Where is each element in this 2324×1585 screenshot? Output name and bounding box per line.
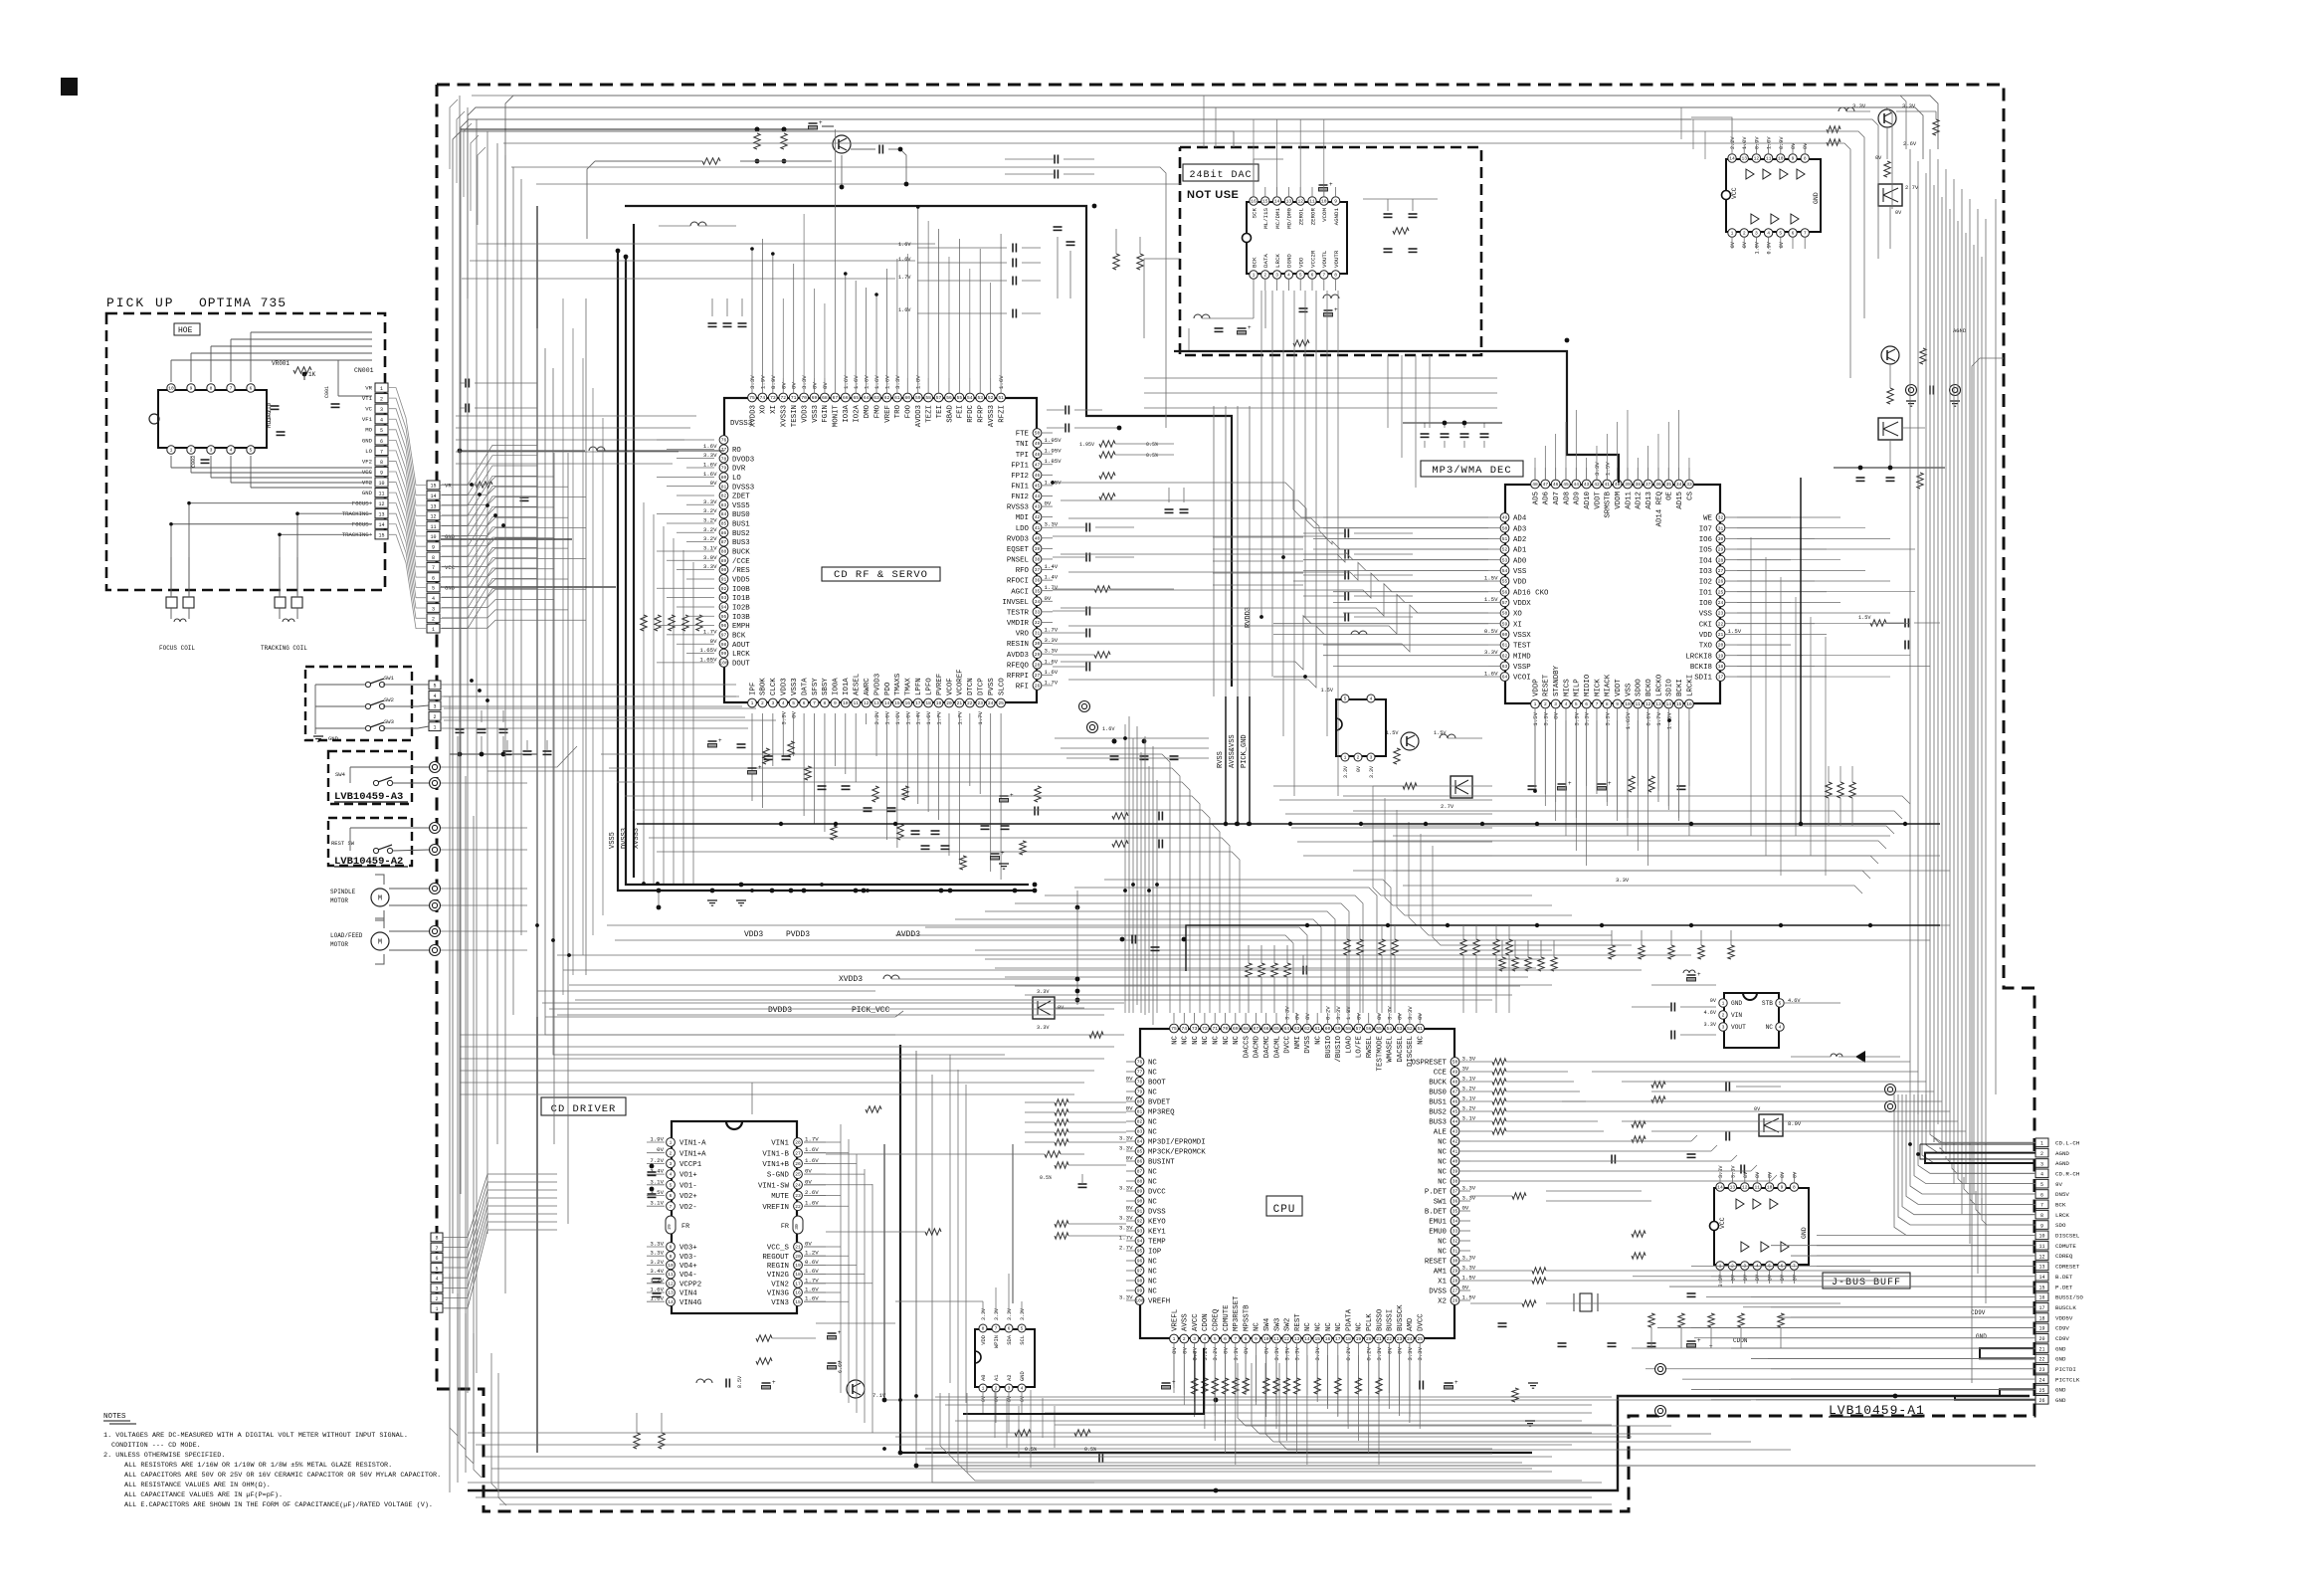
svg-text:91: 91 <box>1137 1209 1143 1215</box>
svg-text:52: 52 <box>1502 547 1508 553</box>
svg-text:3: 3 <box>210 448 213 454</box>
svg-text:0.9V: 0.9V <box>1779 136 1785 149</box>
svg-text:IO0: IO0 <box>1699 600 1712 608</box>
svg-text:RFDC: RFDC <box>967 404 975 422</box>
svg-text:48: 48 <box>1532 482 1538 488</box>
svg-text:AESEL: AESEL <box>854 674 862 695</box>
svg-text:23: 23 <box>2038 1367 2044 1373</box>
svg-text:3.3V: 3.3V <box>1119 1185 1133 1192</box>
svg-text:3.3V: 3.3V <box>1037 1025 1050 1031</box>
svg-text:GND: GND <box>1731 1000 1742 1007</box>
svg-text:TMAXS: TMAXS <box>894 673 902 695</box>
svg-text:P.DET: P.DET <box>1425 1189 1448 1197</box>
svg-text:0.5%: 0.5% <box>1146 453 1158 459</box>
svg-text:56: 56 <box>1366 1026 1372 1032</box>
svg-text:9: 9 <box>1781 1185 1784 1191</box>
svg-text:VO2-: VO2- <box>679 1204 697 1212</box>
svg-text:1.4V: 1.4V <box>1045 563 1059 570</box>
svg-text:BUSIO: BUSIO <box>1325 1035 1333 1058</box>
svg-text:49: 49 <box>1452 1070 1458 1076</box>
svg-text:3.2V: 3.2V <box>1462 1086 1476 1092</box>
svg-text:79: 79 <box>1137 1090 1143 1095</box>
svg-text:33: 33 <box>1035 609 1041 615</box>
svg-text:SW1: SW1 <box>384 675 395 682</box>
svg-text:82: 82 <box>1137 1119 1143 1125</box>
svg-text:AD5: AD5 <box>1532 492 1540 504</box>
svg-text:2: 2 <box>1263 273 1266 279</box>
svg-text:80: 80 <box>1137 1099 1143 1105</box>
svg-text:XVSS3: XVSS3 <box>781 405 789 427</box>
svg-text:BCKO: BCKO <box>1646 679 1653 696</box>
svg-text:9: 9 <box>1792 156 1795 162</box>
svg-text:1: 1 <box>1722 1001 1725 1007</box>
svg-text:81: 81 <box>1137 1109 1143 1115</box>
svg-text:1.7V: 1.7V <box>936 710 943 724</box>
svg-text:17: 17 <box>2038 1305 2044 1311</box>
svg-text:14: 14 <box>1717 1185 1723 1191</box>
svg-text:13: 13 <box>1294 1336 1300 1342</box>
svg-text:38: 38 <box>1636 482 1642 488</box>
svg-text:BUSSO: BUSSO <box>1376 1308 1384 1331</box>
svg-text:NC: NC <box>1254 1322 1261 1331</box>
svg-text:8: 8 <box>380 460 383 466</box>
svg-text:1: 1 <box>982 1386 985 1392</box>
svg-text:BCK: BCK <box>732 633 746 641</box>
svg-text:1.6V: 1.6V <box>1102 726 1115 732</box>
svg-text:MOTOR: MOTOR <box>330 941 348 948</box>
svg-text:0V: 0V <box>1126 1205 1133 1212</box>
svg-text:VDD3: VDD3 <box>801 405 809 423</box>
svg-text:VO3-: VO3- <box>679 1254 697 1262</box>
svg-text:1.6V: 1.6V <box>1045 669 1059 676</box>
svg-text:0.6V: 0.6V <box>805 1259 819 1266</box>
svg-text:75: 75 <box>749 395 755 401</box>
svg-text:FNI1: FNI1 <box>1011 484 1029 492</box>
svg-text:CLCK: CLCK <box>770 678 778 695</box>
svg-text:61: 61 <box>894 395 900 401</box>
svg-text:49: 49 <box>1035 441 1041 447</box>
svg-text:GND: GND <box>1801 1227 1808 1239</box>
svg-text:VREFIN: VREFIN <box>762 1204 789 1212</box>
svg-text:28: 28 <box>1718 557 1724 563</box>
svg-text:2: 2 <box>433 714 436 720</box>
svg-text:23: 23 <box>977 700 983 706</box>
svg-text:64: 64 <box>1502 675 1508 681</box>
svg-text:AGND: AGND <box>2055 1150 2069 1157</box>
svg-text:3.1V: 3.1V <box>650 1200 664 1207</box>
svg-text:+: + <box>1010 792 1014 799</box>
svg-text:NC: NC <box>1148 1269 1157 1277</box>
svg-text:24: 24 <box>988 700 994 706</box>
svg-text:A0: A0 <box>981 1375 987 1381</box>
svg-text:DTCP: DTCP <box>978 678 986 695</box>
svg-text:3.3V: 3.3V <box>1902 102 1916 109</box>
svg-text:VSS: VSS <box>1699 611 1713 619</box>
svg-text:B.DET: B.DET <box>2055 1274 2073 1281</box>
svg-text:64: 64 <box>1284 1026 1290 1032</box>
svg-text:VIN1-B: VIN1-B <box>762 1150 789 1158</box>
svg-text:0V: 0V <box>1710 998 1717 1004</box>
svg-text:VIN: VIN <box>1731 1012 1742 1019</box>
svg-text:NC: NC <box>1192 1035 1200 1044</box>
svg-text:1.7V: 1.7V <box>805 1136 819 1143</box>
svg-text:OPTIMA 735: OPTIMA 735 <box>199 296 287 310</box>
svg-text:VCC: VCC <box>1719 1217 1726 1229</box>
svg-text:3.3V: 3.3V <box>1294 1346 1301 1360</box>
svg-text:28: 28 <box>795 1140 801 1146</box>
svg-text:7: 7 <box>1322 273 1325 279</box>
svg-text:2. UNLESS OTHERWISE SPECIFIED.: 2. UNLESS OTHERWISE SPECIFIED. <box>103 1452 225 1460</box>
svg-text:DGND: DGND <box>1286 254 1293 268</box>
svg-text:XVDD3: XVDD3 <box>839 975 863 984</box>
svg-text:VR001: VR001 <box>272 360 290 367</box>
svg-text:95: 95 <box>1137 1249 1143 1255</box>
svg-text:0V: 0V <box>1780 1274 1786 1281</box>
svg-text:EMU0: EMU0 <box>1429 1229 1447 1237</box>
svg-text:NC: NC <box>1315 1035 1323 1044</box>
svg-text:AD1: AD1 <box>1513 547 1527 555</box>
svg-text:KEY1: KEY1 <box>1148 1229 1166 1237</box>
svg-text:0V: 0V <box>1397 1013 1404 1020</box>
svg-text:NC: NC <box>1325 1322 1333 1331</box>
svg-text:1.9V: 1.9V <box>759 375 766 389</box>
svg-text:ALL RESISTANCE VALUES ARE IN O: ALL RESISTANCE VALUES ARE IN OHM(Ω). <box>124 1482 271 1489</box>
svg-text:29: 29 <box>1452 1269 1458 1275</box>
svg-text:VO1-: VO1- <box>679 1182 697 1190</box>
svg-text:+: + <box>838 1329 842 1336</box>
svg-text:VREFL: VREFL <box>1171 1309 1179 1331</box>
svg-text:35: 35 <box>1666 482 1672 488</box>
svg-text:12: 12 <box>1297 199 1303 205</box>
svg-text:AGND1: AGND1 <box>1333 207 1340 225</box>
svg-text:23: 23 <box>1718 611 1724 617</box>
svg-text:BVDET: BVDET <box>1148 1099 1171 1107</box>
svg-text:+: + <box>819 119 823 126</box>
svg-text:54: 54 <box>967 395 973 401</box>
svg-text:NC: NC <box>1304 1322 1312 1331</box>
svg-text:0V: 0V <box>791 382 798 389</box>
svg-text:VR: VR <box>445 483 452 490</box>
svg-text:3.3V: 3.3V <box>1314 1346 1321 1360</box>
svg-text:31: 31 <box>1035 631 1041 637</box>
svg-text:ML/I1S: ML/I1S <box>1262 207 1269 228</box>
svg-text:1.85V: 1.85V <box>1045 458 1063 465</box>
svg-text:FR: FR <box>681 1223 689 1231</box>
svg-text:1.6V: 1.6V <box>925 710 932 724</box>
svg-text:+: + <box>718 737 722 744</box>
svg-text:DOUT: DOUT <box>732 661 750 669</box>
svg-text:+: + <box>1454 1379 1458 1386</box>
svg-text:20: 20 <box>1718 643 1724 649</box>
svg-text:84: 84 <box>721 511 727 517</box>
svg-text:81: 81 <box>721 484 727 490</box>
svg-text:48: 48 <box>1452 1080 1458 1086</box>
svg-text:RVDD3: RVDD3 <box>1245 607 1253 628</box>
svg-text:VIN4: VIN4 <box>679 1290 697 1298</box>
svg-text:TNI: TNI <box>1016 441 1029 449</box>
svg-text:SDA: SDA <box>1007 1334 1013 1344</box>
svg-text:B.DET: B.DET <box>1425 1209 1448 1217</box>
svg-text:5: 5 <box>1779 231 1782 237</box>
svg-text:AD15: AD15 <box>1676 492 1684 509</box>
svg-text:BUS2: BUS2 <box>732 530 750 538</box>
svg-text:0V: 0V <box>1126 1076 1133 1083</box>
svg-text:PVDD3: PVDD3 <box>873 674 881 695</box>
svg-text:MP3DI/EPROMDI: MP3DI/EPROMDI <box>1148 1139 1206 1147</box>
svg-text:23: 23 <box>795 1193 801 1199</box>
svg-text:+: + <box>1568 780 1572 787</box>
svg-text:57: 57 <box>936 395 942 401</box>
svg-text:BUS0: BUS0 <box>732 511 750 519</box>
svg-text:3.2V: 3.2V <box>703 507 717 514</box>
svg-text:8: 8 <box>1793 1185 1796 1191</box>
svg-text:VOUT: VOUT <box>1731 1024 1746 1031</box>
svg-text:74: 74 <box>1182 1026 1188 1032</box>
svg-text:21: 21 <box>2038 1346 2044 1352</box>
svg-text:DVSS: DVSS <box>1304 1035 1312 1053</box>
svg-text:86: 86 <box>721 530 727 536</box>
svg-text:1.5V: 1.5V <box>1604 462 1611 476</box>
svg-text:3.3V: 3.3V <box>1407 1346 1414 1360</box>
svg-text:VF2: VF2 <box>362 458 372 465</box>
svg-text:FOCUS COIL: FOCUS COIL <box>159 645 195 652</box>
svg-text:0V: 0V <box>822 382 829 389</box>
svg-text:15: 15 <box>378 533 384 539</box>
svg-text:33: 33 <box>1686 482 1692 488</box>
svg-text:98: 98 <box>721 642 727 648</box>
svg-text:TESTR: TESTR <box>1007 609 1030 617</box>
svg-text:GND: GND <box>362 490 373 496</box>
svg-text:+: + <box>1329 181 1333 188</box>
svg-text:5: 5 <box>1779 1001 1782 1007</box>
svg-text:PICK_GND: PICK_GND <box>1241 734 1249 768</box>
svg-text:1.6V: 1.6V <box>904 710 911 724</box>
svg-text:VOUTR: VOUTR <box>1333 250 1340 268</box>
svg-text:60: 60 <box>1502 632 1508 638</box>
svg-text:36: 36 <box>1655 482 1661 488</box>
svg-text:TEST: TEST <box>1513 643 1531 651</box>
svg-text:3.3V: 3.3V <box>1020 1308 1026 1320</box>
svg-text:21: 21 <box>1718 632 1724 638</box>
svg-text:CD9V: CD9V <box>2055 1325 2069 1332</box>
svg-text:0.9V: 0.9V <box>1767 241 1773 254</box>
svg-text:3.3V: 3.3V <box>1343 766 1349 778</box>
svg-text:18: 18 <box>1718 664 1724 670</box>
svg-text:VO1+: VO1+ <box>679 1172 697 1180</box>
svg-text:VIN2G: VIN2G <box>767 1272 789 1280</box>
svg-text:0V: 0V <box>812 382 819 389</box>
svg-text:STANDBY: STANDBY <box>1553 665 1561 696</box>
svg-text:40: 40 <box>1035 535 1041 541</box>
svg-text:3.3V: 3.3V <box>1007 1308 1013 1320</box>
svg-text:SW4: SW4 <box>335 771 346 778</box>
svg-text:2: 2 <box>190 448 193 454</box>
svg-text:MIACK: MIACK <box>1605 674 1613 696</box>
svg-text:87: 87 <box>1137 1169 1143 1175</box>
svg-text:VO4-: VO4- <box>679 1272 697 1280</box>
svg-text:3: 3 <box>771 700 774 706</box>
svg-text:3.3V: 3.3V <box>1462 1195 1476 1202</box>
svg-text:21: 21 <box>1376 1336 1382 1342</box>
svg-text:TESTMODE: TESTMODE <box>1376 1035 1384 1071</box>
svg-text:ZEROL: ZEROL <box>1298 207 1305 225</box>
svg-text:6: 6 <box>380 439 383 445</box>
svg-text:C001: C001 <box>324 386 330 398</box>
svg-text:SDIO: SDIO <box>1666 679 1674 696</box>
svg-text:AWRC: AWRC <box>864 678 871 695</box>
svg-text:MICK: MICK <box>1594 679 1602 696</box>
svg-text:AVSS3: AVSS3 <box>988 405 996 427</box>
svg-text:3.3V: 3.3V <box>703 563 717 570</box>
svg-text:3.3V: 3.3V <box>1462 1265 1476 1272</box>
svg-text:3.3V: 3.3V <box>1594 462 1601 476</box>
svg-text:35: 35 <box>1035 588 1041 594</box>
svg-text:NOTES: NOTES <box>103 1413 126 1421</box>
svg-text:WPIN: WPIN <box>994 1335 1000 1348</box>
svg-text:0V: 0V <box>1243 1346 1250 1353</box>
svg-text:/RES: /RES <box>732 567 750 575</box>
svg-text:13: 13 <box>1655 701 1661 707</box>
svg-text:STB: STB <box>1762 1000 1773 1007</box>
svg-text:0V: 0V <box>1553 711 1560 718</box>
svg-text:VSSX: VSSX <box>1513 632 1531 640</box>
svg-text:0V: 0V <box>1768 1274 1774 1281</box>
svg-text:37: 37 <box>1452 1189 1458 1195</box>
svg-text:63: 63 <box>1294 1026 1300 1032</box>
svg-text:34: 34 <box>1676 482 1682 488</box>
svg-text:CKI: CKI <box>1699 621 1712 629</box>
svg-text:3.3V: 3.3V <box>1119 1225 1133 1232</box>
svg-text:7: 7 <box>670 1204 673 1210</box>
svg-text:2: 2 <box>432 617 435 623</box>
svg-text:2.7V: 2.7V <box>1119 1245 1133 1252</box>
svg-text:RFI: RFI <box>1016 684 1029 692</box>
svg-text:2: 2 <box>435 1296 438 1302</box>
svg-text:1.95V: 1.95V <box>1079 442 1094 448</box>
svg-text:1.7V: 1.7V <box>703 628 717 635</box>
svg-text:DVCC: DVCC <box>1284 1035 1292 1053</box>
svg-text:18: 18 <box>795 1272 801 1278</box>
svg-text:FTE: FTE <box>1016 431 1030 439</box>
svg-text:CD.R-CH: CD.R-CH <box>2055 1171 2080 1178</box>
svg-text:3.3V: 3.3V <box>780 710 787 724</box>
svg-text:37: 37 <box>1646 482 1651 488</box>
svg-text:ALL CAPACITORS ARE 50V OR 25V: ALL CAPACITORS ARE 50V OR 25V OR 16V CER… <box>124 1472 441 1480</box>
svg-text:NC: NC <box>1438 1149 1447 1157</box>
svg-text:5: 5 <box>380 428 383 434</box>
svg-text:VO3+: VO3+ <box>679 1245 697 1253</box>
svg-text:57: 57 <box>1502 600 1508 606</box>
svg-text:47: 47 <box>1543 482 1549 488</box>
svg-text:24Bit DAC: 24Bit DAC <box>1189 169 1252 181</box>
svg-text:DATA: DATA <box>801 678 809 695</box>
svg-text:VIN1+A: VIN1+A <box>679 1150 706 1158</box>
svg-text:41: 41 <box>1452 1149 1458 1155</box>
svg-text:1.6V: 1.6V <box>1045 658 1059 665</box>
svg-text:MICS: MICS <box>1563 679 1571 696</box>
svg-text:64: 64 <box>864 395 870 401</box>
svg-text:FOO: FOO <box>905 404 913 418</box>
svg-text:NC: NC <box>1148 1070 1157 1078</box>
svg-text:MD/DM0: MD/DM0 <box>1286 207 1293 228</box>
svg-text:48: 48 <box>1035 452 1041 458</box>
svg-text:2: 2 <box>1357 755 1360 761</box>
svg-text:2.2V: 2.2V <box>1730 136 1736 149</box>
svg-text:TEI: TEI <box>936 405 944 418</box>
svg-text:GND: GND <box>2055 1345 2066 1352</box>
svg-text:1.6V: 1.6V <box>1484 671 1498 678</box>
svg-text:DATA: DATA <box>1262 254 1269 268</box>
svg-text:SW4: SW4 <box>1263 1317 1271 1331</box>
svg-text:89: 89 <box>1137 1189 1143 1195</box>
svg-text:13: 13 <box>1741 156 1747 162</box>
svg-text:DVOD3: DVOD3 <box>732 456 754 464</box>
svg-text:CDMUTE: CDMUTE <box>1223 1304 1231 1331</box>
svg-text:SW2: SW2 <box>1284 1318 1292 1331</box>
svg-text:97: 97 <box>721 633 727 639</box>
svg-text:21: 21 <box>795 1245 801 1251</box>
svg-text:FEI: FEI <box>957 405 965 418</box>
svg-text:PICTCLK: PICTCLK <box>2055 1376 2080 1383</box>
svg-text:72: 72 <box>781 395 787 401</box>
svg-text:CCE: CCE <box>1434 1070 1448 1078</box>
svg-text:3.0V: 3.0V <box>703 554 717 561</box>
svg-text:AMD: AMD <box>1407 1317 1415 1331</box>
svg-text:9: 9 <box>190 386 193 392</box>
svg-text:0V: 0V <box>1126 1155 1133 1162</box>
svg-text:30: 30 <box>794 1224 800 1230</box>
svg-text:53: 53 <box>1397 1026 1403 1032</box>
svg-text:15: 15 <box>795 1299 801 1305</box>
svg-text:6: 6 <box>1311 273 1314 279</box>
svg-text:VIN3: VIN3 <box>771 1299 789 1307</box>
svg-text:6: 6 <box>432 575 435 581</box>
svg-text:3.3V: 3.3V <box>1604 711 1611 725</box>
svg-text:3.3V: 3.3V <box>994 1308 1000 1320</box>
svg-text:3.3V: 3.3V <box>703 498 717 505</box>
svg-text:10: 10 <box>1263 1336 1269 1342</box>
svg-text:VDD: VDD <box>981 1335 987 1345</box>
svg-text:RVSS3: RVSS3 <box>1007 504 1029 512</box>
svg-text:1: 1 <box>1731 231 1734 237</box>
svg-text:5: 5 <box>2040 1182 2043 1188</box>
svg-text:32: 32 <box>1452 1239 1458 1245</box>
svg-text:LRCK: LRCK <box>732 651 750 659</box>
svg-text:0.9V: 0.9V <box>1754 136 1760 149</box>
svg-text:58: 58 <box>925 395 931 401</box>
svg-text:MILP: MILP <box>1574 679 1582 696</box>
svg-text:AD3: AD3 <box>1513 525 1526 533</box>
svg-text:RFO: RFO <box>1016 567 1030 575</box>
svg-text:GND: GND <box>445 585 456 592</box>
svg-text:IO2: IO2 <box>1699 579 1712 587</box>
svg-text:LPFO: LPFO <box>925 678 933 695</box>
svg-text:BUS3: BUS3 <box>732 539 750 547</box>
svg-text:50: 50 <box>1035 431 1041 437</box>
svg-text:VDD3: VDD3 <box>744 930 763 939</box>
svg-text:1.7V: 1.7V <box>1045 627 1059 634</box>
svg-text:BCK: BCK <box>2055 1202 2066 1209</box>
svg-text:9: 9 <box>670 1254 673 1260</box>
svg-text:VDD: VDD <box>1298 257 1305 268</box>
svg-text:3V: 3V <box>1462 1066 1469 1073</box>
svg-text:0V: 0V <box>1895 210 1902 216</box>
svg-text:+: + <box>838 1359 842 1366</box>
svg-text:CN001: CN001 <box>354 367 374 374</box>
svg-text:9: 9 <box>2040 1223 2043 1229</box>
svg-text:VCC: VCC <box>445 564 456 571</box>
svg-text:69: 69 <box>1233 1026 1239 1032</box>
